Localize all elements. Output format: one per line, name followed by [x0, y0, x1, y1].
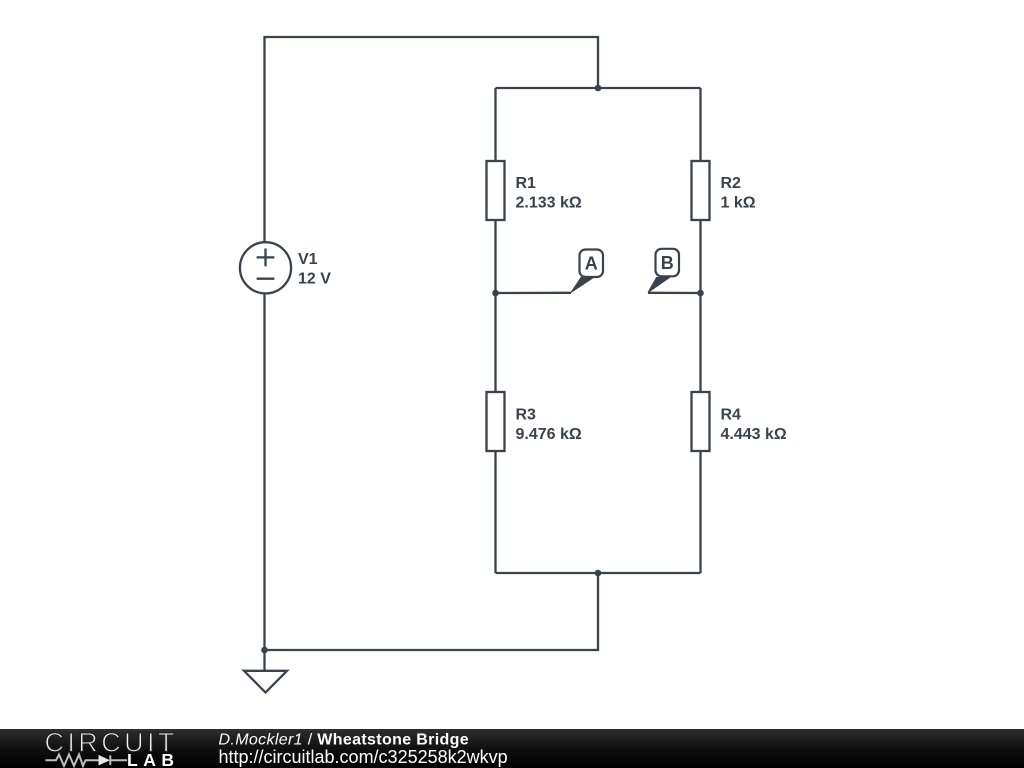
svg-text:B: B [661, 253, 674, 273]
node B flag [648, 249, 679, 293]
svg-text:R1: R1 [516, 175, 537, 192]
svg-text:A: A [585, 254, 598, 274]
junction dot bottom [595, 570, 602, 577]
svg-text:12 V: 12 V [298, 271, 331, 288]
svg-text:V1: V1 [298, 251, 318, 268]
wire R4 to bottom [699, 451, 701, 573]
wire R3 to bottom [494, 451, 496, 573]
node A flag [571, 250, 603, 293]
wire bridge bottom to ground rail [265, 573, 599, 650]
voltage source V1 [240, 242, 291, 293]
wire node B stub [648, 292, 701, 295]
svg-text:R2: R2 [721, 175, 742, 192]
wire R1 to node A [494, 220, 496, 293]
svg-text:1 kΩ: 1 kΩ [721, 195, 756, 212]
wire R1 branch upper [494, 88, 496, 161]
wire top bridge horizontal [496, 87, 701, 89]
svg-text:R3: R3 [516, 407, 537, 424]
junction dot ground rail [261, 647, 268, 654]
svg-text:9.476 kΩ: 9.476 kΩ [516, 426, 582, 443]
wire node B to R4 [699, 293, 701, 392]
junction dot top [595, 85, 602, 92]
wire bottom bridge horizontal [496, 572, 701, 574]
wire node A to R3 [494, 293, 496, 392]
resistor R2 [692, 161, 710, 220]
wire V1 bottom to ground [263, 294, 265, 672]
logo resistor-diode squiggle [46, 755, 128, 766]
resistor R4 [692, 392, 710, 451]
wire R2 to node B [699, 220, 701, 293]
junction dot node B [697, 290, 704, 297]
svg-text:http://circuitlab.com/c325258k: http://circuitlab.com/c325258k2wkvp [219, 747, 508, 767]
wire top loop from V1 to bridge top [265, 37, 599, 242]
svg-text:2.133 kΩ: 2.133 kΩ [516, 195, 582, 212]
resistor R1 [487, 161, 505, 220]
svg-text:4.443 kΩ: 4.443 kΩ [721, 426, 787, 443]
ground [244, 671, 287, 693]
wire node A stub [496, 292, 572, 295]
svg-text:R4: R4 [721, 407, 742, 424]
svg-text:LAB: LAB [127, 750, 179, 768]
wire R2 branch upper [699, 88, 701, 161]
resistor R3 [487, 392, 505, 451]
junction dot node A [492, 290, 499, 297]
